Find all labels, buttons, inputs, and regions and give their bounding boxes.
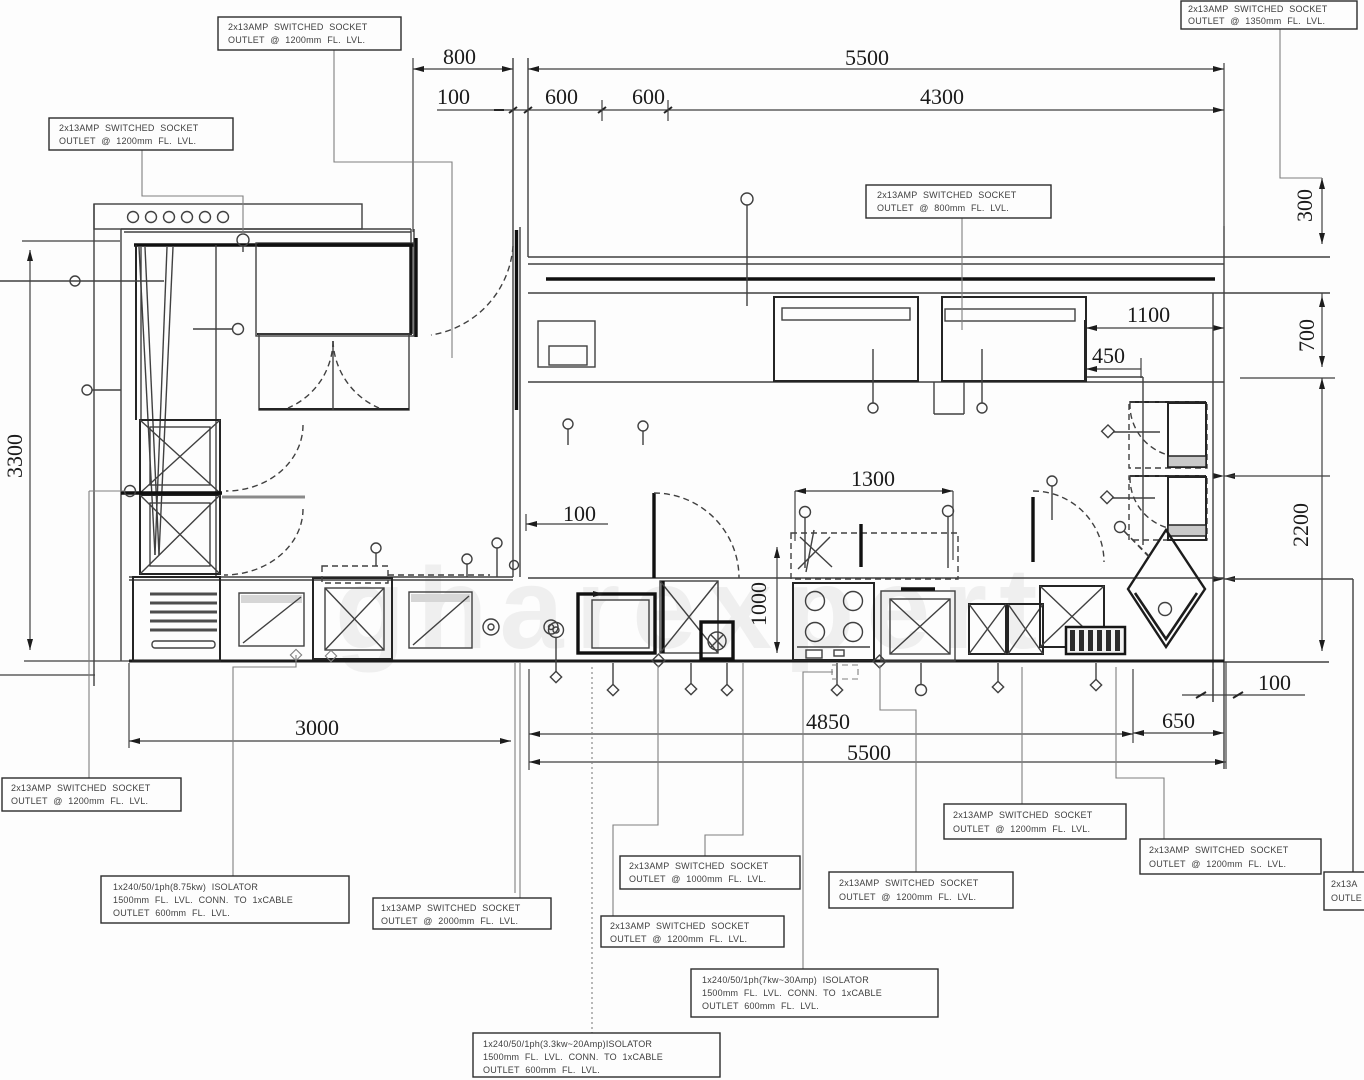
svg-text:OUTLET @ 1200mm FL. LVL.: OUTLET @ 1200mm FL. LVL. [610, 934, 747, 944]
dim 650 bottom [1133, 669, 1224, 743]
svg-text:2x13AMP SWITCHED SOCKET: 2x13AMP SWITCHED SOCKET [839, 878, 979, 888]
socket on top-left wall [237, 234, 249, 252]
striped unit [1066, 627, 1125, 654]
svg-text:OUTLET @ 1200mm FL. LVL.: OUTLET @ 1200mm FL. LVL. [228, 35, 365, 45]
svg-text:1x240/50/1ph(8.75kw) ISOLATOR: 1x240/50/1ph(8.75kw) ISOLATOR [113, 882, 258, 892]
circle right of wall [544, 620, 558, 634]
svg-text:OUTLET @ 1000mm FL. LVL.: OUTLET @ 1000mm FL. LVL. [629, 874, 766, 884]
dim 3000 bottom [129, 663, 511, 748]
dim 2200 right [1213, 378, 1330, 651]
top-left wall band [121, 229, 414, 247]
leader to callout6 [233, 649, 337, 876]
wall cabinet right 2 [1129, 476, 1207, 540]
svg-text:OUTLE: OUTLE [1331, 893, 1362, 903]
svg-text:1x240/50/1ph(7kw~30Amp) ISOLAT: 1x240/50/1ph(7kw~30Amp) ISOLATOR [702, 975, 869, 985]
base unit 2 [239, 593, 304, 646]
wall segment x513 [513, 58, 528, 577]
svg-text:OUTLET 600mm FL. LVL.: OUTLET 600mm FL. LVL. [702, 1001, 819, 1011]
DIMS_TOP [0, 44, 1335, 770]
svg-text:OUTLET @ 2000mm FL. LVL.: OUTLET @ 2000mm FL. LVL. [381, 916, 518, 926]
svg-text:2200: 2200 [1288, 503, 1313, 547]
svg-text:OUTLET @ 1200mm FL. LVL.: OUTLET @ 1200mm FL. LVL. [839, 892, 976, 902]
dim chain 100/600/600/4300 [437, 84, 1224, 121]
bottom wall line [129, 661, 1329, 662]
waste unit small box [701, 622, 733, 659]
corner sink diamond [1124, 530, 1205, 647]
leader to callout10 [880, 665, 916, 872]
leader to callout12 [1116, 667, 1164, 839]
socket below drawer 1 [868, 349, 878, 413]
svg-text:OUTLET @ 800mm FL. LVL.: OUTLET @ 800mm FL. LVL. [877, 203, 1009, 213]
right wall [1213, 226, 1224, 769]
leader to callout11 [1021, 667, 1023, 804]
socket at fridge [193, 324, 244, 335]
hob point circle [483, 619, 499, 635]
svg-text:2x13AMP SWITCHED SOCKET: 2x13AMP SWITCHED SOCKET [877, 190, 1017, 200]
small X-box A [969, 604, 1006, 654]
leader to callout8 [705, 663, 743, 856]
svg-text:2x13AMP SWITCHED SOCKET: 2x13AMP SWITCHED SOCKET [1188, 4, 1328, 14]
callout C5 socket 1200mm [2, 778, 181, 811]
callout C13 socket clipped right [1324, 872, 1364, 910]
callout C6 isolator 8.75kw [101, 876, 349, 923]
drawer unit 2 top counter [942, 297, 1086, 381]
bottom counter top edge [129, 577, 1224, 580]
large X-box right [1040, 586, 1104, 647]
svg-text:700: 700 [1294, 319, 1319, 352]
narrow box below counter gap [934, 382, 964, 414]
socket diamond right col upper [1102, 425, 1160, 438]
dim 700 right [1240, 293, 1335, 378]
dim 100 bottom-right [1182, 669, 1305, 702]
svg-text:800: 800 [443, 44, 476, 69]
svg-text:100: 100 [1258, 670, 1291, 695]
socket above X-box 3 [371, 543, 381, 566]
right units column front [1085, 377, 1143, 545]
socket top wall [741, 193, 753, 306]
svg-text:2x13AMP SWITCHED SOCKET: 2x13AMP SWITCHED SOCKET [228, 22, 368, 32]
APPLIANCES [121, 243, 1224, 661]
leader to callout14 [803, 665, 858, 969]
leader to callout5 [88, 491, 90, 778]
socket diamond right col lower [1101, 491, 1155, 504]
dim 5500 top [528, 45, 1224, 226]
sink unit [578, 591, 655, 653]
svg-text:650: 650 [1162, 708, 1195, 733]
leader to callout15 [591, 667, 593, 1033]
door swing top opening [416, 238, 513, 337]
svg-text:OUTLET @ 1200mm FL. LVL.: OUTLET @ 1200mm FL. LVL. [11, 796, 148, 806]
svg-text:300: 300 [1292, 189, 1317, 222]
slat unit bottom-left [133, 577, 220, 661]
svg-text:2x13AMP SWITCHED SOCKET: 2x13AMP SWITCHED SOCKET [11, 783, 151, 793]
svg-text:600: 600 [545, 84, 578, 109]
svg-text:5500: 5500 [847, 740, 891, 765]
socket left wall lower [89, 486, 136, 497]
svg-text:2x13AMP SWITCHED SOCKET: 2x13AMP SWITCHED SOCKET [1149, 845, 1289, 855]
svg-text:1100: 1100 [1127, 302, 1170, 327]
drawer unit 1 top counter [774, 297, 918, 381]
top-left hood box with vent circles [94, 204, 362, 229]
svg-text:1500mm FL. LVL. CONN. TO 1xCAB: 1500mm FL. LVL. CONN. TO 1xCABLE [483, 1052, 663, 1062]
svg-text:1500mm FL. LVL. CONN. TO 1xCAB: 1500mm FL. LVL. CONN. TO 1xCABLE [113, 895, 293, 905]
svg-text:2x13AMP SWITCHED SOCKET: 2x13AMP SWITCHED SOCKET [610, 921, 750, 931]
door bottom-right [1033, 491, 1104, 562]
svg-text:2x13A: 2x13A [1331, 879, 1358, 889]
door arc lower left [224, 509, 303, 575]
svg-text:OUTLET 600mm FL. LVL.: OUTLET 600mm FL. LVL. [113, 908, 230, 918]
callout C8 socket 1000mm [620, 856, 800, 889]
socket below drawer 2 [977, 349, 987, 413]
wall cabinet right 1 [1129, 402, 1207, 468]
callout C4 socket 1350mm [1181, 1, 1357, 29]
svg-text:OUTLET @ 1350mm FL. LVL.: OUTLET @ 1350mm FL. LVL. [1188, 16, 1325, 26]
WALLS [94, 58, 1353, 872]
svg-text:450: 450 [1092, 343, 1125, 368]
svg-text:OUTLET @ 1200mm FL. LVL.: OUTLET @ 1200mm FL. LVL. [59, 136, 196, 146]
dim 800 top [413, 44, 513, 232]
callout C7 socket 2000mm [373, 898, 551, 929]
left wall [94, 204, 121, 686]
svg-text:1300: 1300 [851, 466, 895, 491]
small appliance on top counter left [538, 321, 595, 367]
svg-text:4300: 4300 [920, 84, 964, 109]
dim 1000 middle [746, 547, 780, 653]
door leaf middle [654, 493, 739, 578]
dim 4850 bottom [529, 669, 1133, 770]
wall line below counter [514, 663, 516, 893]
lower-right room outline [1224, 579, 1353, 872]
socket below counter row [607, 663, 618, 696]
svg-text:100: 100 [437, 84, 470, 109]
dim 1300 middle [795, 466, 953, 560]
svg-text:4850: 4850 [806, 709, 850, 734]
socket above door [638, 421, 648, 445]
dim 450 right [1086, 343, 1141, 378]
leader to callout3 [961, 218, 963, 330]
cooker hood dashed [791, 524, 958, 579]
fridge box top [256, 243, 414, 336]
svg-text:3000: 3000 [295, 715, 339, 740]
dim 1100 right [1085, 302, 1224, 380]
top wall main band [528, 257, 1330, 293]
socket above hood left [800, 507, 811, 569]
socket above unit 4 [462, 554, 472, 577]
callout C11 socket 1200mm [944, 804, 1126, 839]
callout C2 socket 1200mm [49, 118, 233, 150]
dim 5500 bottom [529, 662, 1226, 769]
socket near corner sink [1115, 522, 1149, 557]
svg-text:600: 600 [632, 84, 665, 109]
socket double circle left of sink [549, 623, 564, 683]
tall larder unit left [136, 245, 216, 577]
top counter front edge [528, 381, 1224, 383]
callout C3 socket 800mm [866, 185, 1051, 218]
door arc upper left [226, 425, 303, 491]
leader to callout4 [1280, 29, 1322, 178]
svg-text:OUTLET 600mm FL. LVL.: OUTLET 600mm FL. LVL. [483, 1065, 600, 1075]
svg-text:OUTLET @ 1200mm FL. LVL.: OUTLET @ 1200mm FL. LVL. [953, 824, 1090, 834]
callout C15 isolator 3.3kw [473, 1033, 720, 1077]
dim 300 right [1292, 178, 1325, 244]
socket at wall face [510, 561, 519, 570]
socket right area [1047, 476, 1057, 520]
svg-text:2x13AMP SWITCHED SOCKET: 2x13AMP SWITCHED SOCKET [629, 861, 769, 871]
socket left wall upper [0, 276, 164, 286]
oven X-box left column lower [140, 495, 220, 574]
wall stub left middle [121, 493, 305, 497]
svg-text:5500: 5500 [845, 45, 889, 70]
leader to callout9 [613, 665, 658, 916]
svg-text:1000: 1000 [746, 582, 771, 626]
dim 3300 left [0, 241, 129, 675]
leader to callout1 [334, 50, 452, 358]
cabinet with double door arcs [259, 334, 409, 410]
callout C12 socket 1200mm [1140, 839, 1321, 874]
socket pair above sink [563, 419, 573, 445]
small X-box B [1008, 604, 1043, 654]
hob 4 burners [793, 583, 874, 660]
leader to callout7 [519, 663, 521, 898]
svg-text:2x13AMP SWITCHED SOCKET: 2x13AMP SWITCHED SOCKET [953, 810, 1093, 820]
svg-text:3300: 3300 [2, 434, 27, 478]
X-box unit 3 [313, 566, 490, 659]
base unit 4 [409, 592, 472, 648]
socket near wall top [492, 538, 502, 577]
svg-text:1500mm FL. LVL. CONN. TO 1xCAB: 1500mm FL. LVL. CONN. TO 1xCABLE [702, 988, 882, 998]
callout C10 socket 1200mm [829, 872, 1013, 908]
socket above hood right [943, 506, 954, 569]
svg-text:1x240/50/1ph(3.3kw~20Amp)ISOLA: 1x240/50/1ph(3.3kw~20Amp)ISOLATOR [483, 1039, 652, 1049]
socket left wall mid [82, 385, 121, 395]
callout C14 isolator 7kw [691, 969, 938, 1017]
leader to callout2 [142, 147, 243, 235]
svg-text:1x13AMP SWITCHED SOCKET: 1x13AMP SWITCHED SOCKET [381, 903, 521, 913]
svg-text:2x13AMP SWITCHED SOCKET: 2x13AMP SWITCHED SOCKET [59, 123, 199, 133]
svg-text:OUTLET @ 1200mm FL. LVL.: OUTLET @ 1200mm FL. LVL. [1149, 859, 1286, 869]
dishwasher X-box [660, 581, 718, 653]
dim 100 middle [526, 501, 608, 531]
oven X-box main [881, 589, 955, 661]
callout C1 socket 1200mm [218, 17, 401, 50]
svg-text:100: 100 [563, 501, 596, 526]
callout C9 socket 1200mm [601, 916, 784, 947]
oven X-box left column upper [140, 420, 220, 493]
